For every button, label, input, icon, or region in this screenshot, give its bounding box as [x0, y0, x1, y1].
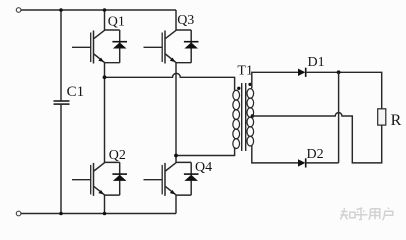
transistor Q2 (IGBT) [72, 163, 105, 196]
wire: C1 branch upper [60, 10, 62, 100]
wire: D1 cathode to R top corner [306, 72, 382, 109]
transformer T1 primary winding [233, 90, 240, 148]
transformer T1 core [242, 83, 246, 151]
capacitor C1 [54, 101, 70, 104]
svg-text:Q1: Q1 [108, 15, 125, 30]
svg-text:D1: D1 [308, 55, 325, 70]
diode D2 [298, 158, 306, 167]
wire: secondary top lead to D1 [252, 72, 298, 88]
antiparallel diode of Q1 [105, 30, 128, 63]
wire: Q4 emitter to bottom rail [175, 195, 177, 213]
svg-text:Q3: Q3 [177, 13, 194, 28]
transistor Q4 (IGBT) [144, 163, 177, 196]
svg-text:Q2: Q2 [109, 148, 126, 163]
top DC input terminal [16, 8, 21, 13]
node: bottom rail / Q2 junction [103, 212, 107, 216]
diode D1 [298, 68, 306, 77]
wire: center tap line with hop over cathode-junction vertical [252, 113, 381, 163]
bottom DC input terminal [16, 211, 21, 216]
wire: top rail [21, 9, 176, 11]
svg-text:T1: T1 [237, 63, 253, 78]
wire: D2 cathode to junction vertical [306, 162, 339, 164]
wire: left leg middle (Q1 emitter to Q2 collector) [104, 63, 106, 163]
antiparallel diode of Q3 [176, 30, 199, 63]
wire: left bridge midpoint to transformer primary top, with hop over right leg [105, 73, 235, 90]
svg-text:C1: C1 [67, 84, 85, 100]
wire: right leg middle (Q3 emitter to Q4 collector) [175, 63, 177, 163]
node: left bridge midpoint junction [103, 75, 107, 79]
transistor Q1 (IGBT) [72, 30, 105, 63]
antiparallel diode of Q4 [176, 162, 199, 195]
node: right bridge midpoint junction [174, 154, 178, 158]
wire: bottom rail [21, 213, 176, 215]
wire: cathode junction down to D2 output (passes under hop) [338, 72, 340, 163]
transformer T1 primary polarity dot [237, 87, 240, 90]
node: bottom rail / C1 junction [59, 212, 63, 216]
svg-text:D2: D2 [307, 147, 324, 162]
svg-text:R: R [391, 112, 402, 129]
resistor R [378, 109, 386, 125]
wire: secondary bottom lead to D2 [252, 145, 298, 163]
transistor Q3 (IGBT) [144, 30, 177, 63]
node: top rail / Q1 junction [103, 8, 107, 12]
wire: right bridge midpoint to transformer primary bottom [176, 147, 235, 155]
transformer T1 secondary winding [247, 89, 254, 146]
node: D1/D2 cathode junction [337, 70, 341, 74]
wire: left leg collector Q1 [104, 10, 106, 30]
transformer T1 secondary polarity dot [248, 83, 251, 86]
watermark (light gray CJK-like strokes) [341, 208, 393, 221]
node: top rail / C1 junction [59, 8, 63, 12]
antiparallel diode of Q2 [105, 162, 128, 195]
node: secondary center tap [251, 114, 255, 118]
wire: C1 branch lower [60, 105, 62, 214]
wire: right leg collector Q3 [175, 10, 177, 30]
wire: Q2 emitter to bottom rail [104, 195, 106, 213]
svg-text:Q4: Q4 [195, 160, 212, 175]
